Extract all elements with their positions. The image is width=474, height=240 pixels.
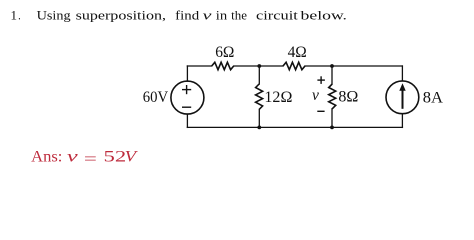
- svg-text:the: the: [231, 9, 247, 23]
- svg-text:1: 1: [11, 9, 18, 23]
- svg-text:find: find: [175, 9, 200, 23]
- svg-text:v: v: [67, 149, 78, 166]
- svg-text:superposition,: superposition,: [76, 9, 166, 23]
- svg-text:v: v: [312, 87, 319, 104]
- svg-text:V: V: [125, 149, 139, 166]
- svg-text:v: v: [203, 9, 212, 23]
- svg-text:=: =: [84, 151, 97, 168]
- svg-text:52: 52: [104, 149, 127, 166]
- svg-text:12Ω: 12Ω: [264, 89, 292, 106]
- svg-text:.: .: [18, 9, 21, 23]
- svg-text:6Ω: 6Ω: [215, 44, 234, 61]
- svg-text:60V: 60V: [143, 89, 169, 106]
- svg-text:in: in: [216, 9, 228, 23]
- svg-text:Using: Using: [37, 9, 72, 23]
- svg-text:8A: 8A: [423, 90, 444, 107]
- svg-text:Ans:: Ans:: [31, 149, 62, 166]
- svg-text:4Ω: 4Ω: [288, 44, 307, 61]
- svg-text:below.: below.: [301, 9, 348, 23]
- svg-text:8Ω: 8Ω: [338, 89, 358, 106]
- svg-text:circuit: circuit: [256, 9, 298, 23]
